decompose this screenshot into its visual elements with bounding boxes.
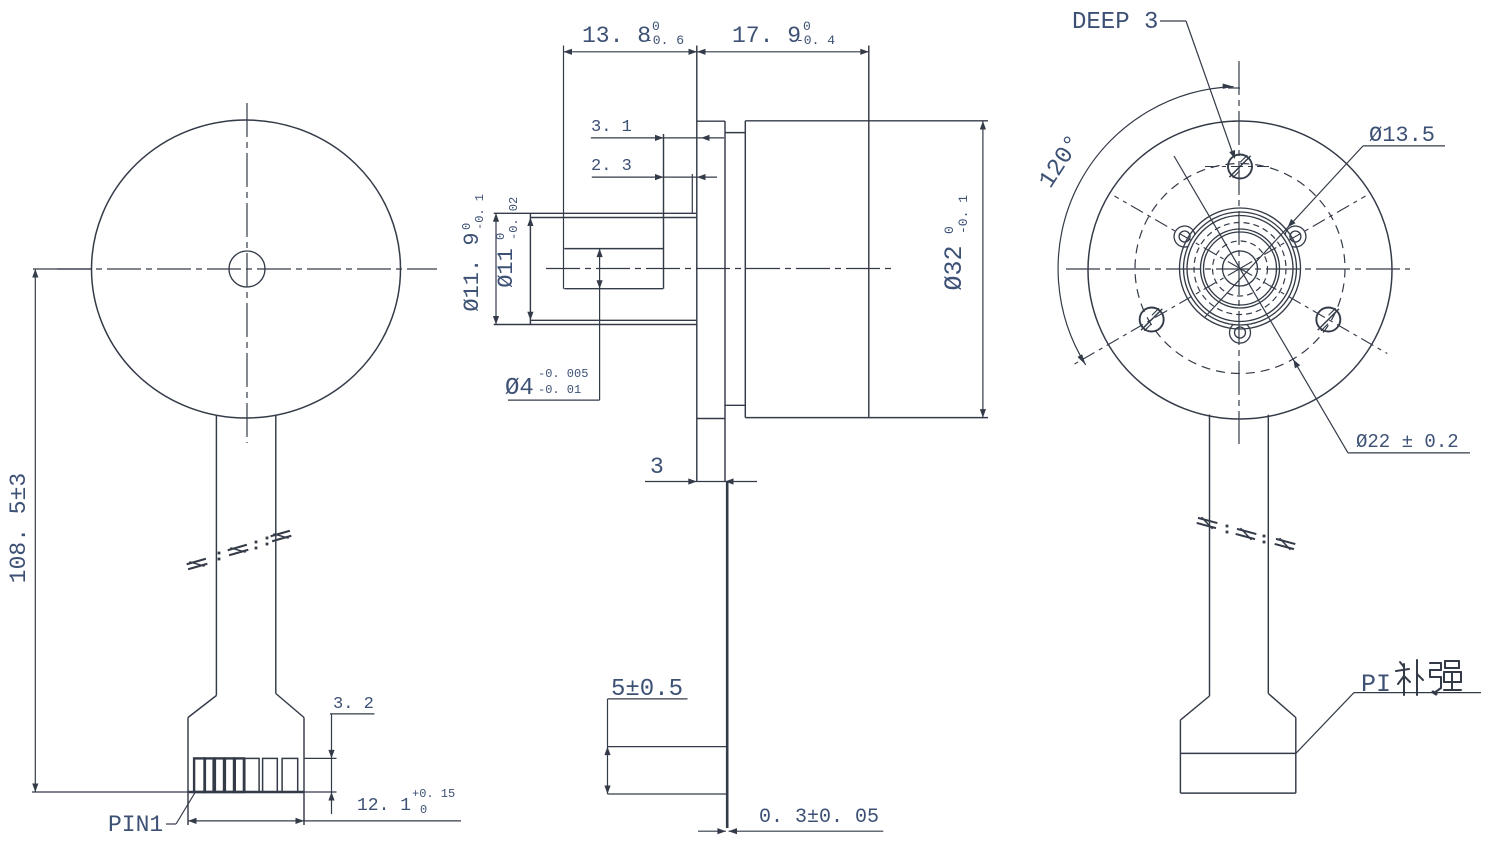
svg-text:-0. 1: -0. 1 xyxy=(473,194,487,230)
svg-text:Ø11: Ø11 xyxy=(494,248,519,288)
svg-text:Ø11. 9: Ø11. 9 xyxy=(460,232,485,311)
svg-text:-0. 005: -0. 005 xyxy=(538,367,588,381)
svg-text:-0. 4: -0. 4 xyxy=(796,33,835,48)
svg-text:Ø32: Ø32 xyxy=(940,245,969,290)
svg-text:Ø22 ± 0.2: Ø22 ± 0.2 xyxy=(1356,431,1459,453)
svg-text:0. 3±0. 05: 0. 3±0. 05 xyxy=(759,806,879,829)
svg-text:DEEP 3: DEEP 3 xyxy=(1072,9,1158,36)
svg-text:PIN1: PIN1 xyxy=(108,812,163,838)
svg-text:2. 3: 2. 3 xyxy=(591,157,632,176)
svg-text:+0. 15: +0. 15 xyxy=(412,787,455,801)
svg-text:108. 5±3: 108. 5±3 xyxy=(6,473,32,583)
svg-text:PI: PI xyxy=(1361,670,1391,699)
svg-text:3. 2: 3. 2 xyxy=(333,695,374,714)
svg-text:0: 0 xyxy=(942,226,957,234)
svg-text:0: 0 xyxy=(803,19,811,34)
svg-text:Ø4: Ø4 xyxy=(505,375,534,402)
svg-text:Ø13.5: Ø13.5 xyxy=(1369,123,1435,148)
svg-text:3. 1: 3. 1 xyxy=(591,118,632,137)
svg-text:13. 8: 13. 8 xyxy=(582,23,651,49)
svg-text:-0. 6: -0. 6 xyxy=(645,33,684,48)
svg-text:12. 1: 12. 1 xyxy=(357,796,411,816)
svg-text:0: 0 xyxy=(420,803,427,817)
svg-text:-0. 02: -0. 02 xyxy=(507,197,521,240)
svg-text:0: 0 xyxy=(460,223,474,230)
svg-text:0: 0 xyxy=(652,19,660,34)
svg-text:-0. 1: -0. 1 xyxy=(956,195,971,234)
svg-text:3: 3 xyxy=(650,454,664,480)
svg-text:-0. 01: -0. 01 xyxy=(538,383,581,397)
svg-text:17. 9: 17. 9 xyxy=(732,23,801,49)
svg-text:0: 0 xyxy=(494,233,508,240)
